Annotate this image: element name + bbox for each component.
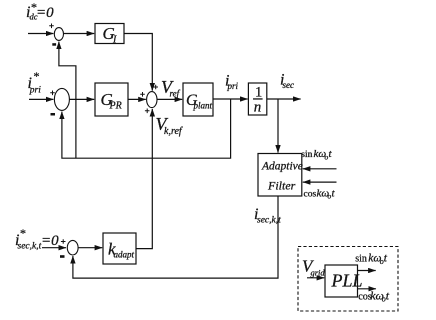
minus sign at S4 feedback bbox=[60, 255, 65, 258]
wire: i*_sec input to summing junction S4 bbox=[42, 247, 66, 249]
svg-text:k,ref: k,ref bbox=[164, 126, 183, 137]
summing junction S1 bbox=[54, 28, 63, 41]
wire: V_grid into PLL bbox=[307, 277, 324, 279]
wire: G_PR to S3 bbox=[128, 98, 146, 100]
block PLL bbox=[325, 265, 363, 297]
summing junction S4 bbox=[67, 240, 78, 255]
svg-text:t: t bbox=[384, 253, 388, 265]
wire: i*_dc input to summing junction S1 bbox=[28, 33, 53, 35]
svg-text:Adaptive: Adaptive bbox=[261, 161, 303, 173]
plus sign at S1 input bbox=[49, 24, 54, 29]
svg-text:pri: pri bbox=[29, 86, 41, 96]
svg-text:adapt: adapt bbox=[114, 250, 135, 260]
wire: 1/n to i_sec output bbox=[267, 98, 301, 100]
svg-text:I: I bbox=[112, 35, 117, 46]
plus sign at S3 left input bbox=[140, 92, 145, 97]
wire: k_adapt output up into S3 bottom bbox=[136, 109, 152, 249]
svg-text:=0: =0 bbox=[36, 5, 54, 21]
label cos kw_o t (PLL) bbox=[358, 288, 390, 303]
label i*_dc=0 bbox=[26, 0, 54, 22]
wire: i*_pri input to summing junction S2 bbox=[29, 98, 53, 100]
wire: G_I output down to summing junction S3 top bbox=[124, 34, 152, 91]
wire: S3 to G_plant bbox=[157, 98, 182, 100]
block Adaptive Filter bbox=[258, 154, 303, 197]
wire: S1 to G_I bbox=[64, 33, 95, 35]
svg-text:PLL: PLL bbox=[331, 271, 363, 291]
svg-text:sec,k,t: sec,k,t bbox=[18, 242, 42, 252]
wire: S2 to G_PR bbox=[69, 98, 94, 100]
label i_sec,k,t bbox=[254, 206, 281, 226]
minus sign at S1 feedback bbox=[52, 43, 56, 46]
svg-text:ref: ref bbox=[170, 89, 181, 99]
svg-text:PR: PR bbox=[109, 101, 122, 112]
block G_PR bbox=[95, 83, 128, 116]
block 1/n bbox=[248, 83, 266, 116]
plus sign at S3 top input bbox=[153, 85, 158, 90]
svg-text:1: 1 bbox=[255, 85, 262, 101]
label cos kw_o t (adaptive filter) bbox=[304, 187, 336, 200]
label sin kw_o t (PLL) bbox=[355, 253, 388, 266]
wire: i_sec tap down into Adaptive Filter bbox=[277, 99, 279, 153]
svg-text:*: * bbox=[20, 226, 26, 240]
svg-text:t: t bbox=[329, 148, 333, 160]
label i*_sec,k,t=0 bbox=[15, 226, 59, 252]
svg-text:sin: sin bbox=[355, 254, 367, 265]
svg-text:t: t bbox=[332, 187, 336, 199]
label sin kw_o t (adaptive filter) bbox=[301, 148, 332, 161]
plus sign at S2 input bbox=[50, 91, 55, 96]
block G_plant bbox=[183, 83, 213, 116]
wire: cos input into Adaptive Filter bbox=[303, 181, 337, 183]
label V_ref bbox=[161, 77, 181, 99]
svg-text:*: * bbox=[34, 69, 40, 83]
wire: sin input into Adaptive Filter bbox=[303, 168, 337, 170]
plus sign at S3 bottom input bbox=[145, 109, 150, 114]
block k_adapt bbox=[103, 233, 136, 264]
svg-text:Filter: Filter bbox=[267, 179, 296, 193]
svg-text:sec,k,t: sec,k,t bbox=[257, 216, 281, 226]
svg-text:sec: sec bbox=[283, 80, 295, 90]
summing junction S3 bbox=[147, 92, 157, 108]
minus sign at S2 feedback bbox=[51, 113, 56, 116]
svg-text:cos: cos bbox=[304, 189, 317, 199]
svg-text:pri: pri bbox=[227, 81, 239, 91]
label V_k,ref bbox=[156, 114, 183, 137]
svg-text:t: t bbox=[386, 288, 390, 302]
dashed box around PLL bbox=[298, 247, 398, 312]
wire: Adaptive Filter output down, left, up into S4 bbox=[73, 196, 278, 278]
wire: i_pri feedback down and left into S2 bbox=[62, 99, 231, 158]
wire: PLL sin output bbox=[358, 270, 376, 272]
wire: S4 to k_adapt bbox=[79, 247, 103, 249]
label i*_pri bbox=[28, 69, 42, 96]
svg-text:sin: sin bbox=[301, 150, 312, 160]
summing junction S2 bbox=[54, 88, 69, 110]
svg-text:=0: =0 bbox=[41, 233, 59, 249]
svg-text:n: n bbox=[254, 100, 261, 116]
wire: G_plant to 1/n block bbox=[213, 98, 248, 100]
svg-text:plant: plant bbox=[193, 101, 213, 111]
wire: PLL cos output bbox=[358, 288, 376, 290]
label i_pri bbox=[225, 73, 239, 92]
block G_I bbox=[95, 24, 124, 46]
label i_sec bbox=[280, 72, 294, 91]
label V_grid bbox=[302, 257, 325, 278]
svg-text:grid: grid bbox=[311, 268, 326, 278]
wire: feedback branch up into S1 bbox=[59, 42, 76, 159]
plus sign at S4 input bbox=[61, 239, 66, 244]
